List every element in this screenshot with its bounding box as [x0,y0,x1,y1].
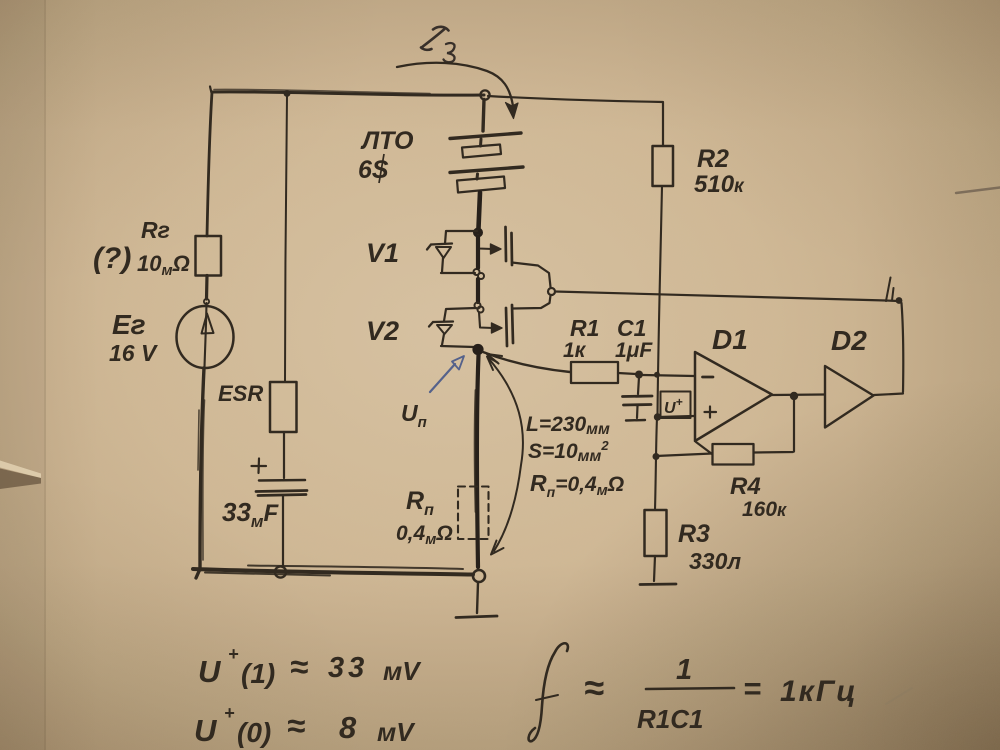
svg-text:V1: V1 [366,238,399,268]
formula f = 1/R1C1 = 1kHz [529,643,858,741]
wire R4 to D1 lower-left [696,442,712,454]
svg-text:V2: V2 [366,316,399,346]
svg-text:Eг: Eг [112,309,146,340]
svg-text:≈: ≈ [584,667,604,708]
resistor R1 [571,362,618,383]
wire R2 down to plus-input node [658,186,663,416]
svg-text:≈: ≈ [290,648,308,685]
arrow blue Un pointer [430,356,464,392]
svg-text:D2: D2 [831,325,867,356]
svg-text:Rг: Rг [141,217,170,243]
capacitor 33mF [256,480,307,567]
svg-text:33мF: 33мF [222,497,280,531]
ground below R3 [640,583,676,586]
svg-text:0,4мΩ: 0,4мΩ [396,522,453,548]
node dot feedback corner [896,297,903,304]
svg-text:R3: R3 [678,520,710,548]
label current I3 [421,27,455,62]
node dot R4 tap [653,453,660,460]
faint scratch bottom right [886,688,912,704]
svg-text:+: + [228,644,239,664]
wire D1 output [772,393,824,396]
node bottom open circle [473,570,485,582]
wire bottom horizontal [193,566,473,576]
svg-text:330л: 330л [689,548,741,574]
wire ESR branch vertical [285,96,287,382]
wire Un node to R1 with arrowhead [483,352,570,372]
svg-text:6Ѕ: 6Ѕ [358,156,389,184]
arrow double-headed arc L S Rn annotation [487,357,523,555]
wire end flourish ticks [886,278,894,302]
node open circle at 33mF branch on bottom wire [275,566,286,577]
capacitor C1 [623,377,653,421]
node dot vertical crossing on minus wire [654,372,660,378]
wire output down to R4 [754,398,794,453]
svg-text:1μF: 1μF [615,339,653,362]
svg-text:+: + [224,703,235,723]
resistor Rn dashed box [458,487,489,540]
wire thick Un node down to bottom node [475,355,479,567]
box U+ label [661,392,691,419]
wire D2 output [874,394,903,396]
svg-text:R4: R4 [730,473,761,500]
svg-text:(?): (?) [93,242,131,275]
wire gate feedback long horizontal [555,292,898,302]
source Er [177,299,234,368]
svg-text:R1: R1 [570,315,599,341]
arrow I3 curved into node [397,63,518,119]
capacitor 33mF polarity plus [252,459,267,474]
label 6S [358,154,389,184]
transistor V2 [429,296,551,348]
wire Er to bottom-left corner [196,368,205,578]
wire to D1 plus input [659,416,694,417]
wire C1 node to D1 minus input [643,375,694,376]
wire R4 node horizontal [656,454,712,457]
svg-text:(1): (1) [241,658,275,689]
wire top-right to R2 corner [488,96,663,146]
svg-text:1к: 1к [563,339,587,362]
op-amp D2 [825,366,874,428]
wire thick V1-V2 [476,237,480,302]
svg-text:ESR: ESR [218,381,263,406]
wire top horizontal [210,87,484,96]
resistor R3 [645,510,667,556]
faint line right edge [956,188,1000,194]
wire R3 to ground [654,556,655,581]
svg-text:16 V: 16 V [109,340,158,366]
svg-text:C1: C1 [617,315,646,341]
node dot D1 output [790,392,798,400]
svg-text:мV: мV [383,656,422,686]
svg-text:U: U [198,654,222,689]
wire ESR to capacitor [283,432,285,478]
svg-text:R2: R2 [697,145,729,173]
node circles between V1 and V2 [474,269,485,279]
node open circle MOSFET drains output [548,288,555,295]
op-amp D1 [695,352,772,441]
svg-text:R1C1: R1C1 [637,704,703,734]
svg-text:(0): (0) [237,717,271,748]
svg-text:1кГц: 1кГц [780,675,858,708]
battery GB1 ATO 6S [450,100,523,229]
node open circle battery top [480,90,489,99]
wire left vertical upper [207,92,212,236]
svg-text:U: U [194,713,218,748]
node junction of ESR branch on top wire [284,90,291,97]
resistor ESR [270,382,297,432]
node Un junction dot [472,344,483,355]
node circles at V2 top [475,303,484,313]
node dot R1-C1 [635,371,643,379]
formula U+(1)=33mV [198,644,422,689]
svg-text:мV: мV [377,717,416,747]
svg-text:33: 33 [328,652,368,684]
formula U+(0)=8mV [194,703,416,748]
wire R1 to C1 node [618,373,636,374]
svg-text:510к: 510к [694,171,745,198]
wire Rr to Er [205,276,209,300]
resistor Rr [196,236,222,276]
svg-text:=: = [743,671,761,706]
wire feedback vertical right [902,303,904,392]
ground below bottom node [456,583,497,618]
svg-text:≈: ≈ [287,707,305,744]
transistor V1 [427,227,551,287]
svg-text:D1: D1 [712,324,748,355]
svg-text:160к: 160к [742,498,787,521]
wire plus node down to R4 node and R3 [655,418,657,510]
resistor R2 [653,146,674,186]
svg-text:1: 1 [676,654,692,686]
resistor R4 [713,444,754,465]
svg-text:ЛTO: ЛTO [360,127,414,155]
svg-text:Rп=0,4мΩ: Rп=0,4мΩ [530,470,624,500]
svg-text:8: 8 [339,710,357,745]
node dot plus input [654,413,661,420]
